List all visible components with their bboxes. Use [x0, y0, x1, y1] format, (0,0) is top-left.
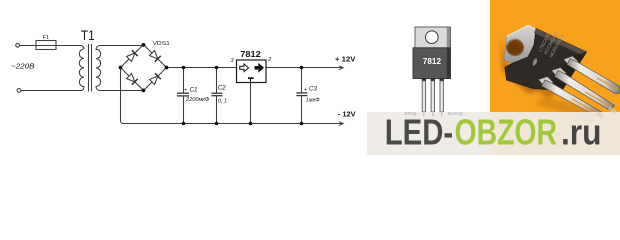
photo: shadow under legs	[535, 96, 600, 122]
diode VD3 lower-left of bridge	[126, 73, 138, 85]
7812 package drawing: legs	[422, 81, 443, 112]
schematic background	[0, 0, 620, 155]
7812 package drawing: body	[413, 48, 451, 79]
node: bridge minus junction	[119, 66, 123, 70]
photo: dark leg shoulder zone	[546, 52, 587, 91]
svg-text:- 12V: - 12V	[338, 109, 356, 118]
svg-text:~220В: ~220В	[11, 62, 35, 71]
node: C1 top junction	[182, 66, 186, 70]
photo: body top bevel highlight	[534, 29, 587, 57]
capacitor C1 plates	[177, 93, 189, 96]
terminal X1 top (~220V)	[16, 43, 20, 47]
capacitor C1 wires	[183, 68, 185, 124]
fuse F1	[36, 41, 56, 50]
node: C3 bottom junction	[300, 122, 304, 126]
svg-text:C2: C2	[218, 84, 226, 91]
regulator U1 7812 box	[237, 60, 267, 83]
capacitor C2 wires	[216, 68, 218, 124]
wire: regulator ground pin to negative rail	[250, 83, 252, 124]
photo: tab hole inner dark	[508, 42, 520, 54]
+12V output arrowhead	[339, 66, 344, 70]
regulator output filled arrow	[255, 64, 264, 73]
wire: regulator output to +12V arrow	[266, 67, 343, 69]
capacitor C3 wires	[301, 68, 303, 124]
svg-text:T1: T1	[81, 27, 95, 43]
photo: shadow under body bottom	[510, 66, 560, 98]
7812 package drawing: leg roots	[422, 79, 444, 81]
photo: shadow under tab	[501, 38, 540, 94]
svg-text:2: 2	[267, 57, 271, 63]
svg-text:LED-: LED-	[385, 112, 454, 153]
node: bridge plus junction	[165, 66, 169, 70]
7812 package drawing: mounting hole	[426, 31, 439, 44]
wire: fuse F1 to transformer primary top	[56, 46, 84, 50]
transformer T1 core	[89, 44, 92, 92]
diode VD2 upper-right of bridge	[149, 50, 161, 62]
photo: leg right (top)	[567, 59, 620, 94]
regulator ground pin symbol	[248, 78, 254, 82]
svg-text:3: 3	[231, 58, 234, 64]
transformer T1 primary winding	[79, 49, 84, 91]
bridge rectifier VDS1 diamond wires	[121, 45, 167, 91]
svg-text:.ru: .ru	[561, 112, 602, 153]
diode VD1 upper-left of bridge	[126, 50, 138, 62]
svg-text:VDS1: VDS1	[153, 41, 170, 47]
terminal X2 bottom (~220V)	[17, 89, 21, 93]
7812 package drawing: faint leg tips under strip	[424, 112, 442, 117]
node: C3 top junction	[300, 66, 304, 70]
regulator input hollow arrow	[240, 64, 249, 72]
svg-text:7812: 7812	[240, 50, 261, 59]
svg-text:7812: 7812	[423, 57, 442, 66]
node: bridge AC bottom junction	[142, 89, 146, 93]
wire: bridge plus node to regulator input	[167, 67, 237, 69]
wire: terminal X1 to fuse F1	[20, 45, 37, 47]
transformer T1 secondary winding	[96, 46, 101, 91]
negative rail wire to -12V arrow	[123, 123, 343, 125]
photo: leg middle	[555, 71, 615, 111]
photo: tab bright edge	[507, 26, 543, 37]
svg-text:1мкФ: 1мкФ	[306, 97, 321, 103]
svg-text:+ 12V: + 12V	[335, 55, 355, 64]
photo: tab hole inner shadow	[507, 39, 521, 45]
photo: leg left (bottom)	[542, 80, 603, 118]
svg-text:C1: C1	[190, 87, 198, 94]
node: C1 bottom junction	[182, 122, 186, 126]
watermark strip overlay	[367, 112, 620, 155]
photo: faint leg streaks over strip	[597, 108, 616, 117]
wire: secondary bottom to bridge AC bottom node	[100, 90, 144, 92]
node: regulator ground rail junction	[249, 122, 253, 126]
node: bridge AC top junction	[142, 43, 146, 47]
7812 package drawing: tab	[415, 27, 451, 48]
capacitor C3 plates	[296, 93, 307, 96]
wire: terminal X2 to transformer primary bottom	[21, 90, 81, 92]
diode VD4 lower-right of bridge	[149, 73, 161, 85]
photo: body marking text	[537, 28, 564, 59]
photo: orange reflections on legs	[572, 78, 619, 114]
svg-text:2200мкФ: 2200мкФ	[185, 97, 210, 103]
photo: metal tab	[504, 26, 546, 69]
node: C2 top junction	[215, 66, 219, 70]
wire: secondary top to bridge AC top node	[100, 45, 144, 47]
photo: leg shoulders	[539, 56, 579, 87]
photo: orange background	[490, 0, 620, 155]
node: C2 bottom junction	[215, 122, 219, 126]
wire: bridge minus node down to negative rail	[121, 68, 124, 124]
svg-text:0, 1: 0, 1	[218, 99, 227, 105]
photo: tab hole showing orange	[506, 39, 523, 55]
capacitor C2 plates	[211, 93, 222, 96]
svg-text:F1: F1	[43, 35, 50, 41]
photo: package body	[505, 29, 587, 91]
svg-text:C3: C3	[309, 86, 317, 93]
svg-text:OBZOR: OBZOR	[455, 112, 558, 153]
-12V output arrowhead	[339, 122, 344, 126]
